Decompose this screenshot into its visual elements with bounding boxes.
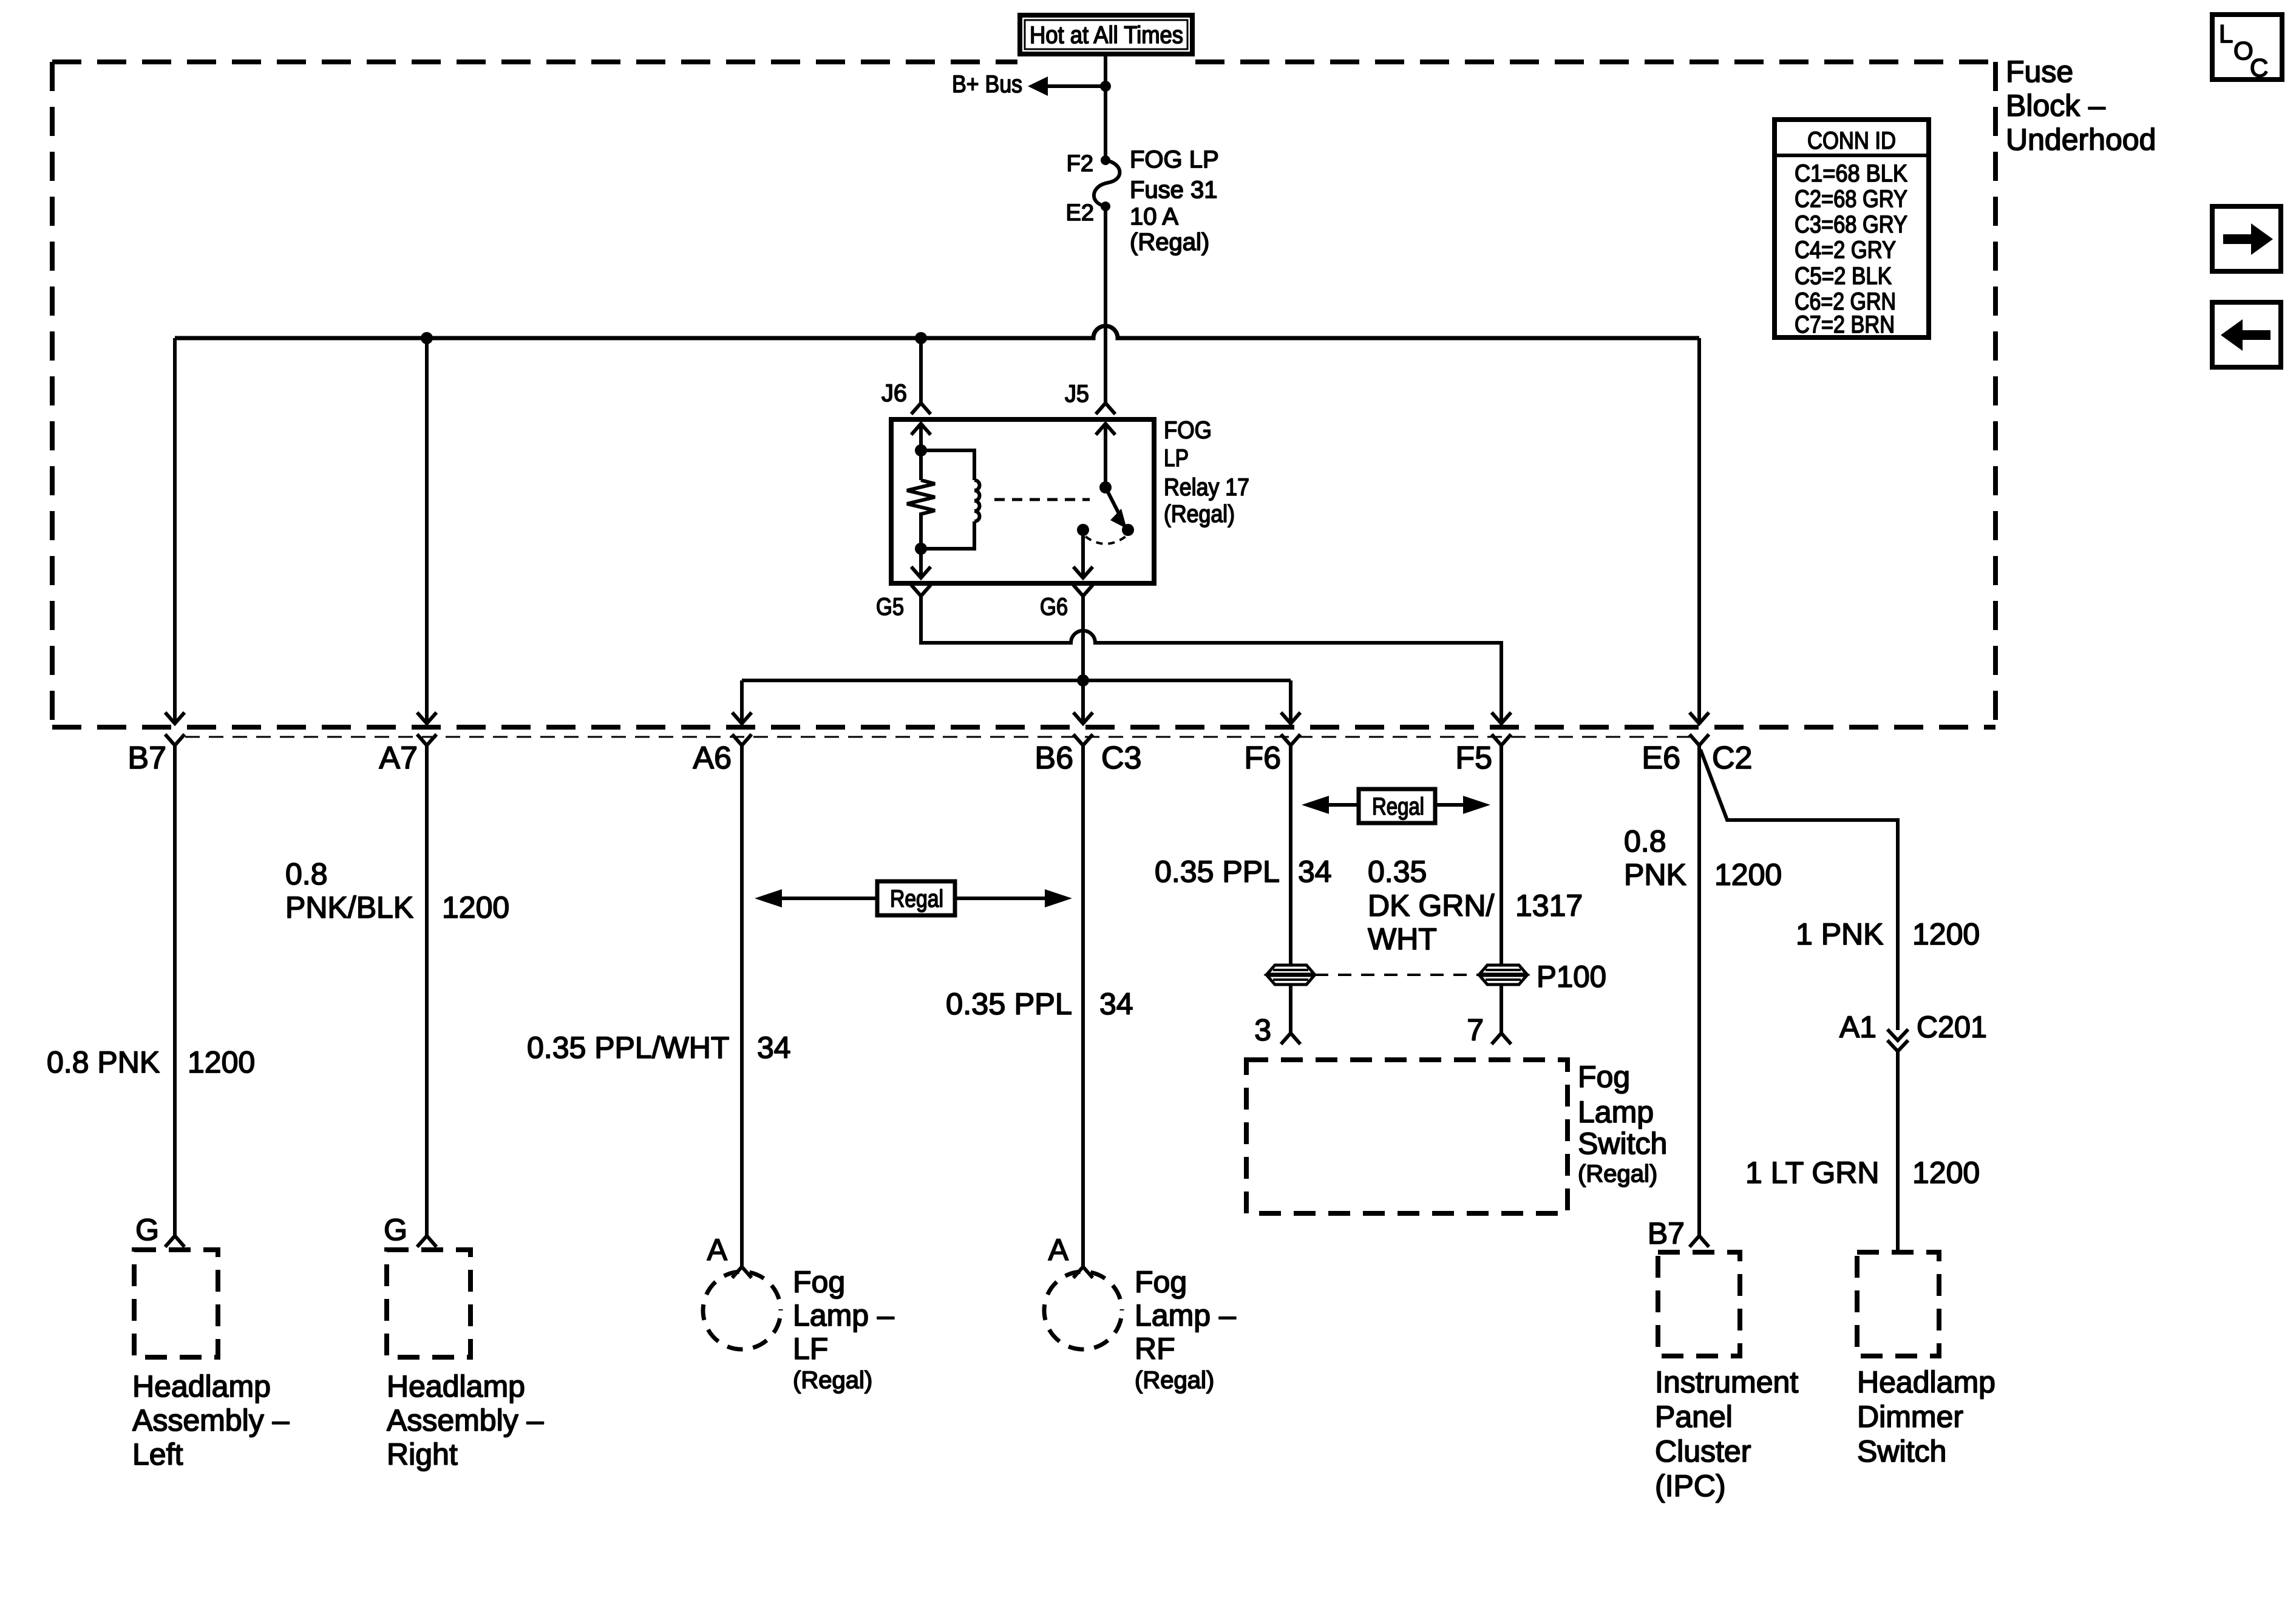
svg-text:Right: Right — [387, 1437, 458, 1471]
wire fuse to relay J5 — [1104, 206, 1107, 402]
svg-text:Headlamp: Headlamp — [1857, 1365, 1995, 1399]
svg-text:(IPC): (IPC) — [1655, 1469, 1726, 1503]
svg-text:Relay 17: Relay 17 — [1164, 474, 1249, 501]
C2 branch diagonal and down — [1700, 750, 1980, 1030]
svg-text:Fog: Fog — [1135, 1265, 1187, 1299]
svg-text:Panel: Panel — [1655, 1400, 1733, 1434]
svg-text:FOG LP: FOG LP — [1130, 146, 1219, 173]
headlamp dimmer switch box — [1857, 1252, 1995, 1468]
instrument panel cluster box — [1655, 1252, 1798, 1503]
F6 column — [1155, 745, 1332, 964]
relay internals: coil pin J6 arrow — [912, 424, 929, 480]
svg-text:0.35: 0.35 — [1368, 855, 1427, 889]
svg-text:Regal: Regal — [890, 886, 943, 912]
Hot at All Times box — [1020, 15, 1192, 54]
fog lamp RF circle — [1044, 1265, 1236, 1394]
resistor — [907, 480, 935, 518]
regal range arrow between A6 and B6 — [755, 881, 1072, 915]
svg-text:(Regal): (Regal) — [1130, 229, 1209, 256]
fog lamp switch box — [1246, 1060, 1667, 1213]
C201 inline connector — [1745, 1010, 1987, 1252]
svg-text:1200: 1200 — [188, 1045, 255, 1079]
connector pin labels — [127, 741, 1752, 776]
svg-text:1200: 1200 — [1912, 1156, 1980, 1190]
switch arm with arrowhead — [1106, 487, 1134, 536]
relay FOG LP Relay 17 box — [891, 419, 1154, 583]
wire bus to J6 — [919, 338, 923, 402]
branch line to A6 and F6 — [742, 679, 1291, 682]
svg-text:Headlamp: Headlamp — [387, 1369, 525, 1403]
svg-text:E6: E6 — [1642, 741, 1680, 776]
svg-text:34: 34 — [1099, 987, 1133, 1021]
wire bus to E6 — [1697, 338, 1701, 721]
F5 column — [1368, 745, 1583, 1047]
svg-text:Hot at All Times: Hot at All Times — [1030, 22, 1183, 49]
svg-text:C3=68 GRY: C3=68 GRY — [1795, 211, 1907, 238]
svg-text:P100: P100 — [1537, 960, 1606, 994]
B6 column — [946, 745, 1133, 1276]
fuse F2/E2 FOG LP Fuse 31 10A — [1066, 146, 1219, 256]
svg-text:Instrument: Instrument — [1655, 1365, 1798, 1399]
svg-text:DK GRN/: DK GRN/ — [1368, 889, 1494, 923]
svg-text:Headlamp: Headlamp — [132, 1369, 271, 1403]
wire from hot box down to fuse — [1104, 54, 1107, 160]
svg-text:(Regal): (Regal) — [793, 1367, 872, 1394]
svg-text:G6: G6 — [1040, 594, 1068, 620]
svg-text:F5: F5 — [1455, 741, 1492, 776]
svg-text:Dimmer: Dimmer — [1857, 1400, 1963, 1434]
svg-text:Lamp –: Lamp – — [793, 1298, 894, 1332]
svg-text:1200: 1200 — [1912, 917, 1980, 951]
svg-text:G5: G5 — [876, 594, 904, 620]
A6 column — [527, 745, 791, 1276]
svg-text:C2=68 GRY: C2=68 GRY — [1795, 186, 1907, 212]
svg-text:L: L — [2219, 19, 2233, 48]
svg-text:1317: 1317 — [1515, 889, 1583, 923]
svg-text:B7: B7 — [127, 741, 166, 776]
svg-text:F2: F2 — [1067, 151, 1093, 177]
E6 column — [1624, 745, 1782, 1250]
svg-text:Underhood: Underhood — [2006, 123, 2156, 157]
svg-text:1200: 1200 — [442, 890, 509, 924]
G5 G6 labels and connectors below relay — [876, 586, 1092, 620]
svg-text:B6: B6 — [1034, 741, 1073, 776]
svg-text:C7=2 BRN: C7=2 BRN — [1795, 311, 1895, 338]
svg-text:C2: C2 — [1712, 741, 1752, 776]
svg-text:0.35 PPL: 0.35 PPL — [1155, 855, 1280, 889]
dashed actuation link — [994, 498, 1090, 501]
svg-text:C4=2 GRY: C4=2 GRY — [1795, 237, 1896, 263]
svg-text:3: 3 — [1254, 1013, 1271, 1047]
B+ Bus tap — [952, 71, 1111, 98]
svg-text:C3: C3 — [1101, 741, 1141, 776]
wire bus to A7 — [425, 338, 429, 721]
svg-text:Fuse 31: Fuse 31 — [1130, 177, 1218, 203]
svg-text:Switch: Switch — [1857, 1434, 1946, 1468]
fuse block label — [2006, 55, 2156, 157]
headlamp assembly left box — [132, 1250, 290, 1471]
svg-text:A6: A6 — [693, 741, 732, 776]
svg-text:(Regal): (Regal) — [1578, 1161, 1657, 1187]
svg-text:0.35 PPL: 0.35 PPL — [946, 987, 1072, 1021]
svg-text:A: A — [707, 1233, 728, 1267]
svg-text:E2: E2 — [1066, 200, 1094, 226]
svg-text:0.8: 0.8 — [1624, 824, 1666, 858]
svg-text:F6: F6 — [1244, 741, 1281, 776]
svg-text:1 PNK: 1 PNK — [1796, 917, 1884, 951]
F6 lower wire to switch — [1254, 985, 1299, 1047]
left arrow box — [2212, 302, 2281, 367]
B7 column wire and labels — [47, 745, 255, 1247]
J6 label and connector — [881, 380, 929, 413]
svg-text:FOG: FOG — [1164, 417, 1212, 444]
headlamp assembly right box — [387, 1250, 544, 1471]
svg-text:C: C — [2250, 53, 2268, 82]
bus line under fuse block with hop over fuse wire — [175, 326, 1699, 344]
svg-text:34: 34 — [1298, 855, 1332, 889]
svg-text:Cluster: Cluster — [1655, 1434, 1751, 1468]
svg-text:Left: Left — [132, 1437, 183, 1471]
svg-text:LF: LF — [793, 1332, 828, 1366]
svg-text:1200: 1200 — [1714, 858, 1782, 892]
svg-text:CONN ID: CONN ID — [1807, 127, 1896, 154]
svg-text:(Regal): (Regal) — [1164, 501, 1235, 527]
LOC box — [2212, 15, 2282, 82]
svg-text:34: 34 — [757, 1031, 791, 1065]
svg-text:10 A: 10 A — [1130, 203, 1178, 230]
svg-text:B7: B7 — [1648, 1216, 1685, 1250]
resistor lower wire and arrow out G5 — [912, 518, 929, 578]
svg-text:(Regal): (Regal) — [1135, 1367, 1214, 1394]
svg-text:J6: J6 — [881, 380, 907, 407]
relay switch pin J5 arrow — [1097, 424, 1114, 493]
svg-text:J5: J5 — [1065, 381, 1089, 407]
connector row: male arrows above dashed line — [166, 714, 1708, 724]
svg-text:C1=68 BLK: C1=68 BLK — [1795, 160, 1907, 187]
svg-text:G: G — [384, 1213, 407, 1247]
svg-text:A7: A7 — [379, 741, 418, 776]
svg-text:0.35 PPL/WHT: 0.35 PPL/WHT — [527, 1031, 729, 1065]
G5 wire down, right to F5 with hop over G6 — [921, 596, 1501, 721]
svg-text:Block –: Block – — [2006, 89, 2105, 123]
svg-text:7: 7 — [1467, 1013, 1484, 1047]
wire bus to B7 — [173, 338, 177, 721]
svg-text:Fuse: Fuse — [2006, 55, 2073, 89]
svg-text:Assembly –: Assembly – — [387, 1403, 544, 1437]
fuse block underhood dashed border — [52, 62, 1995, 727]
J5 label and connector — [1065, 381, 1114, 413]
svg-text:0.8: 0.8 — [285, 857, 328, 891]
svg-text:C201: C201 — [1917, 1010, 1987, 1044]
svg-text:PNK: PNK — [1624, 858, 1686, 892]
svg-text:RF: RF — [1135, 1332, 1175, 1366]
svg-text:C5=2 BLK: C5=2 BLK — [1795, 263, 1892, 290]
svg-text:WHT: WHT — [1368, 922, 1437, 956]
svg-text:Regal: Regal — [1372, 793, 1424, 820]
svg-text:A1: A1 — [1839, 1010, 1877, 1044]
fog lamp LF circle — [703, 1265, 894, 1394]
svg-text:Fog: Fog — [793, 1265, 845, 1299]
svg-text:Switch: Switch — [1578, 1127, 1667, 1161]
A7 column wire and labels — [285, 745, 509, 1247]
svg-text:A: A — [1048, 1233, 1069, 1267]
CONN ID table — [1775, 120, 1929, 338]
right arrow box — [2212, 206, 2281, 271]
svg-text:B+ Bus: B+ Bus — [952, 71, 1022, 98]
svg-text:Lamp –: Lamp – — [1135, 1298, 1236, 1332]
switch fixed contact to G6 — [1075, 524, 1126, 578]
svg-text:LP: LP — [1164, 445, 1189, 472]
svg-text:Lamp: Lamp — [1578, 1095, 1654, 1129]
coil in parallel — [921, 450, 980, 549]
thin dashed connector row line — [185, 736, 1691, 738]
regal range arrow between F6 and F5 — [1302, 789, 1490, 823]
svg-text:Fog: Fog — [1578, 1060, 1630, 1094]
P100 inline connector at F5 — [1479, 960, 1606, 994]
connector row: female chevrons below dashed line — [166, 736, 1708, 745]
dashed pairing line P100 — [1315, 974, 1479, 976]
G6 wire down to junction — [1081, 596, 1085, 721]
svg-text:PNK/BLK: PNK/BLK — [285, 890, 413, 924]
svg-text:0.8 PNK: 0.8 PNK — [47, 1045, 160, 1079]
svg-text:1 LT GRN: 1 LT GRN — [1745, 1156, 1879, 1190]
svg-text:G: G — [135, 1213, 159, 1247]
P100 inline connector at F6 — [1267, 965, 1314, 985]
svg-text:Assembly –: Assembly – — [132, 1403, 290, 1437]
